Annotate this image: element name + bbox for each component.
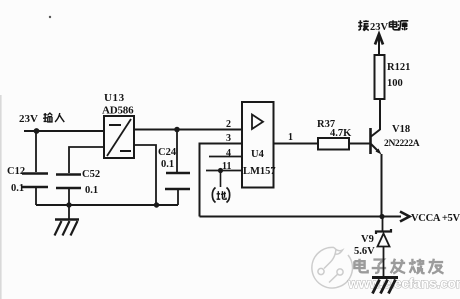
svg-text:VCCA +5V: VCCA +5V: [411, 213, 460, 224]
svg-text:www.elecfans.com: www.elecfans.com: [347, 275, 460, 291]
svg-text:C24: C24: [158, 147, 177, 158]
watermark logo circle: [312, 247, 353, 288]
resistor R37 4.7K: [317, 119, 352, 150]
transistor V18 2N2222A: [371, 100, 420, 155]
svg-text:V9: V9: [361, 234, 374, 245]
svg-text:LM157: LM157: [243, 166, 276, 177]
label 23V 输入: [19, 113, 64, 125]
svg-text:1: 1: [288, 132, 293, 143]
capacitor C12: [7, 131, 48, 205]
svg-text:5.6V: 5.6V: [354, 246, 375, 257]
wire VCCA +5V rail: [200, 216, 402, 218]
svg-text:4.7K: 4.7K: [330, 128, 352, 139]
node junction emitter-rail: [379, 214, 384, 219]
wire ground rail left: [36, 204, 178, 206]
voltage reference U13 AD586: [102, 92, 134, 158]
node junction AD586-gnd: [154, 202, 159, 207]
wire AD586 out to U4 pin2: [134, 129, 242, 131]
scan speck top-left: [49, 16, 51, 18]
ground left: [55, 205, 80, 236]
svg-text:U13: U13: [104, 92, 125, 104]
svg-text:100: 100: [387, 78, 403, 89]
wire input 23V: [24, 130, 104, 132]
svg-text:0.1: 0.1: [85, 185, 98, 196]
svg-text:3: 3: [226, 133, 231, 144]
wire to analog ground symbol: [220, 171, 222, 188]
ground right: [372, 278, 398, 294]
wire R37 to base: [349, 143, 370, 145]
svg-text:R121: R121: [387, 62, 410, 73]
wire pin4 stub: [209, 156, 242, 158]
watermark text 电子发烧友: [354, 259, 443, 274]
svg-text:23V: 23V: [19, 113, 38, 125]
capacitor C52: [56, 147, 104, 205]
svg-text:23V: 23V: [370, 22, 389, 33]
svg-text:V18: V18: [392, 124, 410, 135]
op-amp U4 LM157: [242, 102, 276, 188]
capacitor C24: [158, 130, 190, 205]
node junction C24 tap: [174, 127, 180, 133]
resistor R121 100: [375, 55, 411, 99]
node junction pin11-gnd: [218, 168, 223, 173]
node junction input: [34, 128, 40, 134]
svg-text:0.1: 0.1: [161, 159, 174, 170]
svg-text:0.1: 0.1: [11, 183, 24, 194]
wire pin3 feedback: [200, 144, 243, 217]
svg-text:C52: C52: [82, 169, 100, 180]
svg-text:2: 2: [226, 119, 231, 130]
arrow VCCA: [400, 212, 410, 222]
svg-text:U4: U4: [251, 149, 265, 160]
zener diode V9 5.6V: [354, 217, 391, 277]
left edge scan artifact: [0, 95, 2, 299]
ground (地) symbol: [212, 188, 229, 203]
wire AD586 gnd pin down: [134, 145, 156, 205]
power arrow 接23V电源: [358, 20, 408, 56]
wire emitter down: [381, 154, 383, 217]
svg-text:AD586: AD586: [102, 105, 134, 117]
svg-text:2N2222A: 2N2222A: [384, 139, 420, 149]
wire U4 out to R37: [274, 143, 319, 145]
wire pin11: [206, 170, 242, 172]
svg-text:C12: C12: [7, 166, 25, 177]
node junction C52-gnd: [66, 202, 71, 207]
